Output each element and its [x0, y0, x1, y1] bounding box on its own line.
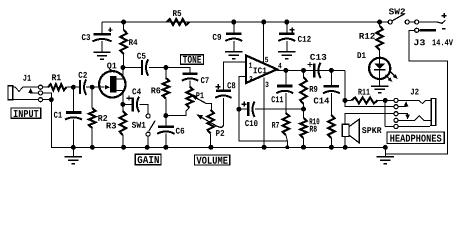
node P2/rail junction: [208, 145, 213, 150]
label P2: [216, 130, 224, 136]
polarity + J3: [442, 13, 447, 18]
switch SW1 lever: [149, 121, 155, 131]
label pin 2: [249, 76, 252, 81]
node R3/rail junction: [121, 145, 126, 150]
contact J2 terminal 5: [394, 124, 398, 128]
capacitor C11: [276, 70, 293, 113]
wire output to jack NC line: [345, 100, 394, 106]
contact J2 terminal 3: [394, 112, 398, 116]
LED D1 light arrows: [385, 72, 397, 82]
switch SW2 left contact: [388, 20, 392, 24]
node output/C11 junction: [283, 68, 288, 73]
label J3 minus sign: [442, 28, 446, 30]
switch SW2 right contact: [405, 20, 409, 24]
node R12/rail junction: [377, 20, 382, 25]
node output/R9 junction: [301, 68, 306, 73]
label J2: [411, 89, 419, 95]
wire C2 to Q1 gate: [86, 86, 99, 88]
label J3: [414, 39, 425, 45]
capacitor C1: [65, 87, 82, 147]
resistor R9: [300, 70, 307, 109]
wire J3 plus lead: [419, 20, 446, 23]
label C5: [137, 53, 146, 59]
label R7: [272, 122, 279, 128]
wire pin2 net to R7 bottom: [239, 109, 288, 147]
node C6/rail junction: [163, 145, 168, 150]
battery minus lead: [420, 29, 437, 32]
wire J1 sleeve to ground: [43, 99, 52, 101]
label C12: [298, 36, 311, 42]
transistor Q1 drain lead: [116, 68, 123, 79]
polarity + C10: [242, 102, 247, 107]
label HEADPHONES box: [387, 132, 444, 144]
node pin3/rail junction: [262, 145, 267, 150]
label R11: [358, 89, 369, 95]
node R2/rail junction: [90, 145, 95, 150]
node C9/rail junction: [231, 20, 236, 25]
polarity + C12: [290, 27, 295, 32]
wire J2 ring line with notch: [398, 116, 431, 121]
capacitor C12: [278, 22, 295, 52]
capacitor C3: [93, 22, 112, 52]
label GAIN box: [135, 154, 161, 164]
label INPUT box: [11, 108, 41, 118]
connector J3 minus pin: [415, 28, 419, 32]
capacitor C14: [323, 70, 340, 115]
label P1: [196, 92, 203, 98]
potentiometer P2 wiper arrow: [197, 115, 224, 128]
label TONE box: [181, 55, 204, 64]
capacitor C13: [304, 63, 332, 78]
wire P2 bottom lead: [210, 133, 212, 147]
ground C12: [278, 52, 295, 59]
contact J2 terminal 2: [394, 105, 398, 109]
resistor R4: [120, 22, 127, 68]
wire speaker to rail: [344, 137, 346, 148]
resistor R5: [167, 19, 190, 25]
label C4: [132, 88, 141, 94]
resistor R11: [345, 97, 385, 103]
label C13: [310, 54, 326, 60]
potentiometer P2 body: [207, 110, 214, 134]
capacitor C8 wire from wiper: [223, 98, 225, 125]
capacitor C4: [123, 97, 148, 114]
ground D1: [371, 86, 388, 93]
wire pin5 to rail: [263, 22, 265, 63]
wire R11 to ground rail: [384, 100, 386, 126]
contact J1 sleeve terminal: [38, 98, 42, 102]
contact J1 switch terminal: [38, 91, 42, 95]
node Q1 drain junction: [120, 65, 125, 70]
node R11 right junction: [383, 98, 388, 103]
label R12: [359, 33, 374, 39]
capacitor C5: [123, 59, 166, 75]
label SW1: [132, 122, 146, 128]
wire J1 sleeve lead: [13, 99, 39, 101]
wire J2 switch arm 1: [398, 101, 408, 107]
node main ground junction: [383, 145, 388, 150]
label C9: [213, 34, 221, 40]
resistor R12: [376, 22, 383, 58]
node C12/rail junction: [284, 20, 289, 25]
headphone plug J2: [430, 98, 436, 125]
wire J1 switch arm: [28, 88, 38, 93]
node C1/rail junction: [71, 145, 76, 150]
label IC1: [254, 67, 267, 73]
resistor R10: [328, 115, 335, 147]
label R2: [98, 115, 107, 121]
label R6: [151, 87, 160, 93]
node C14 junction: [329, 68, 334, 73]
label R5: [173, 10, 181, 16]
resistor R7: [283, 113, 290, 141]
polarity + C4: [127, 96, 132, 101]
wire C8 to pin1: [223, 62, 245, 90]
label VOLUME box: [194, 155, 229, 165]
ground main (under J2): [377, 147, 394, 163]
wire J1 tip lead with notch: [13, 87, 39, 91]
label C7: [201, 77, 209, 83]
resistor R8: [300, 109, 307, 147]
label SW2: [389, 8, 405, 14]
wire J2 sleeve line: [385, 126, 430, 128]
capacitor C2: [80, 80, 86, 95]
transistor Q1 circle: [99, 71, 125, 97]
connector J1 body: [8, 86, 13, 100]
node R4/rail junction: [121, 20, 126, 25]
node SPKR/rail junction: [343, 145, 348, 150]
polarity + C8: [216, 84, 221, 89]
node R2 junction: [90, 85, 95, 90]
wire pin3 to rail: [263, 78, 265, 148]
label R9: [310, 86, 318, 92]
wire pin2 lead: [239, 77, 246, 110]
node R6/C6/P1 junction: [163, 113, 168, 118]
transistor Q1 gate arrow: [99, 85, 110, 90]
wire P1 bottom lead: [166, 108, 190, 116]
capacitor C10: [239, 102, 304, 117]
label pin 3: [265, 82, 268, 87]
wire C13 to R11 node: [344, 70, 346, 100]
wire R1 to C2: [73, 86, 79, 88]
label C6: [176, 128, 184, 134]
label SPKR: [362, 127, 382, 133]
capacitor C7: [182, 74, 198, 87]
speaker SPKR box: [342, 124, 349, 136]
node J1 ground junction: [49, 97, 54, 102]
resistor R2: [89, 87, 96, 147]
label D1: [357, 52, 365, 58]
label pin 4: [278, 63, 281, 68]
contact J2 terminal 4: [394, 118, 398, 122]
resistor R6: [163, 68, 170, 116]
polarity + C13: [307, 62, 312, 67]
capacitor C9: [225, 22, 242, 52]
switch SW1 top contact: [146, 114, 150, 118]
label pin 1: [249, 63, 252, 68]
label pin 5: [265, 57, 268, 62]
label C3: [82, 34, 90, 40]
wire J1 switch to ground: [43, 93, 52, 100]
label R8: [310, 126, 317, 132]
node C1 junction: [71, 85, 76, 90]
node Q1 source junction: [120, 102, 125, 107]
label C11: [271, 96, 283, 102]
wire J3 return to ground: [385, 30, 447, 154]
label R3: [106, 123, 116, 129]
transistor Q1 channel bar: [110, 76, 116, 92]
node R10/rail junction: [329, 145, 334, 150]
polarity + C3: [108, 28, 113, 33]
wire J2 switch arm 2: [398, 114, 410, 120]
label C14: [314, 98, 329, 104]
ground C9: [225, 52, 242, 59]
wire speaker to jack switch line: [345, 114, 394, 125]
wire J2 tip line with notch: [398, 100, 431, 103]
node SW1/rail junction: [145, 145, 150, 150]
resistor R3: [120, 104, 127, 147]
node R8/rail junction: [301, 145, 306, 150]
switch SW1 bottom contact: [146, 132, 150, 136]
potentiometer P1 body: [186, 86, 193, 107]
contact J1 tip terminal: [38, 85, 42, 89]
node pin5/rail junction: [261, 20, 266, 25]
wire SW2 to J3: [409, 21, 414, 23]
node R11 left junction: [343, 98, 348, 103]
label J3 voltage 14.4V: [432, 39, 453, 45]
LED D1 diode: [374, 58, 385, 79]
wire V+ top rail: [102, 21, 388, 23]
capacitor C8: [215, 91, 231, 98]
wire IC1 output: [277, 69, 345, 71]
potentiometer P1 wiper arrow: [192, 95, 212, 110]
switch SW1 lead to rail: [147, 136, 149, 147]
contact J2 terminal 1: [394, 98, 398, 102]
label J1: [23, 75, 31, 81]
node R7/rail junction: [286, 145, 290, 149]
op-amp IC1 triangle: [246, 56, 277, 84]
LED D1 circle: [369, 58, 390, 79]
connector J3 plus pin: [415, 20, 419, 24]
ground input stage: [65, 147, 82, 163]
capacitor C6: [157, 116, 174, 148]
label R1: [52, 74, 61, 80]
transistor Q1 source lead: [116, 91, 123, 105]
label R10: [310, 118, 320, 124]
label C2: [79, 72, 87, 78]
label R4: [129, 39, 137, 45]
resistor R1: [43, 84, 74, 90]
ground C3: [93, 52, 110, 59]
label C1: [54, 112, 62, 118]
wire tone node to C7: [166, 68, 190, 73]
speaker SPKR cone: [349, 119, 359, 143]
node pin2/C10 junction: [236, 107, 241, 112]
wire R11 to J2 tip: [385, 99, 394, 101]
label C8: [227, 82, 235, 88]
switch SW2 lever: [392, 13, 405, 20]
node R9/R8 junction: [301, 107, 306, 112]
wire D1 to ground: [379, 79, 381, 86]
label C10: [245, 120, 257, 126]
label Q1: [107, 63, 116, 71]
wire ground bottom rail: [51, 100, 385, 148]
node tone input junction: [163, 65, 168, 70]
